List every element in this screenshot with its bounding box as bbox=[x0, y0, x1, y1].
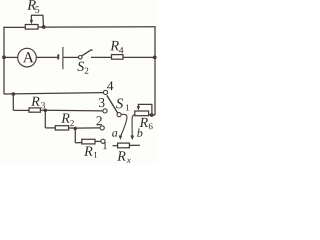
contact 2 circle bbox=[100, 126, 104, 130]
arrowhead a bbox=[119, 135, 123, 140]
wire row2 to contact 3 bbox=[45, 109, 102, 112]
contact 4 circle bbox=[103, 90, 107, 94]
label a bbox=[112, 131, 117, 137]
switch S1 pivot circle bbox=[117, 113, 121, 117]
label S2 bbox=[77, 62, 88, 74]
label Rx bbox=[117, 151, 131, 162]
node row1 junction bbox=[12, 92, 16, 96]
battery short plate bbox=[57, 54, 59, 59]
node R6 junction bbox=[150, 113, 154, 117]
label 2 bbox=[96, 116, 101, 125]
label R5 bbox=[27, 0, 39, 12]
wire R3 to junction bbox=[41, 109, 46, 111]
wire R6 to junction bbox=[149, 114, 152, 116]
arc arrow a bbox=[121, 114, 127, 137]
label 3 bbox=[99, 98, 105, 107]
switch S2 blade tip bbox=[91, 49, 93, 52]
wire row3 to contact 2 bbox=[75, 127, 100, 129]
wire drop row3-row4 bbox=[74, 128, 76, 143]
contact 1 circle bbox=[101, 139, 105, 143]
wire drop row2-row3 bbox=[44, 110, 46, 128]
battery long plate bbox=[62, 47, 64, 69]
wire Rx left bbox=[113, 145, 118, 147]
wire top-right segment bbox=[44, 26, 156, 28]
resistor R4 bbox=[112, 55, 124, 60]
resistor R1 bbox=[82, 139, 95, 144]
node right rail / R4 junction bbox=[153, 56, 157, 60]
wire R2 to junction bbox=[69, 127, 76, 129]
label R4 bbox=[110, 41, 123, 53]
wire ammeter to battery bbox=[36, 56, 57, 58]
node left rail / ammeter junction bbox=[2, 55, 6, 59]
wire Rx right bbox=[129, 144, 140, 146]
resistor R2 bbox=[55, 126, 68, 130]
wire top-left segment bbox=[3, 26, 25, 28]
label R6 bbox=[140, 118, 153, 129]
label R2 bbox=[61, 114, 74, 127]
label A bbox=[23, 52, 34, 62]
resistor R6 bbox=[135, 111, 149, 116]
R5 slider arrowhead bbox=[30, 20, 33, 24]
wire R1 to contact 1 bbox=[95, 140, 101, 142]
resistor R5 bbox=[25, 25, 38, 30]
resistor R3 bbox=[29, 108, 40, 112]
wire R4 to right rail bbox=[123, 56, 155, 58]
node R5 right junction bbox=[42, 25, 46, 29]
label R1 bbox=[84, 147, 97, 158]
label b bbox=[137, 129, 142, 137]
wire between R5 and junction bbox=[38, 26, 44, 28]
label R3 bbox=[31, 97, 45, 109]
node row2 junction bbox=[44, 109, 48, 113]
node row3 junction bbox=[73, 127, 77, 131]
label S1 bbox=[116, 98, 129, 110]
R6 slider arm wire bbox=[138, 104, 152, 114]
wire row2 left bbox=[13, 109, 29, 111]
contact 3 circle bbox=[103, 109, 107, 113]
resistor Rx bbox=[118, 143, 130, 148]
label 1 bbox=[103, 142, 107, 149]
wire battery to switch S2 bbox=[63, 56, 78, 58]
label 4 bbox=[107, 81, 113, 90]
arrowhead b bbox=[130, 136, 134, 141]
switch S1 blade bbox=[107, 95, 118, 113]
wire rail to R6 node bbox=[152, 114, 155, 116]
wire S2 to R4 bbox=[91, 56, 112, 58]
switch S2 blade bbox=[82, 50, 91, 56]
wire rail to ammeter bbox=[4, 56, 18, 58]
ammeter A1 circle bbox=[18, 48, 37, 67]
wire row1 to contact 4 bbox=[4, 93, 103, 94]
R6 slider arrowhead bbox=[137, 106, 140, 110]
wire left rail bbox=[3, 27, 5, 94]
wire right rail bbox=[154, 26, 156, 115]
arc arrow b bbox=[132, 115, 135, 138]
wire row3 left bbox=[45, 127, 55, 129]
wire row4 left bbox=[75, 142, 82, 144]
wire drop row1-row2 bbox=[12, 94, 14, 110]
switch S2 contact circle bbox=[79, 56, 83, 60]
R5 slider arm wire bbox=[31, 15, 43, 27]
